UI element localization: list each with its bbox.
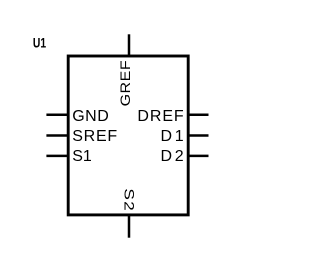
- svg-text:GND: GND: [72, 108, 109, 125]
- svg-text:S1: S1: [72, 148, 92, 165]
- svg-text:DREF: DREF: [137, 108, 184, 125]
- svg-text:D1: D1: [161, 128, 184, 145]
- svg-text:SREF: SREF: [72, 128, 117, 145]
- svg-text:S2: S2: [121, 188, 136, 212]
- svg-text:U1: U1: [33, 36, 47, 51]
- svg-text:D2: D2: [161, 148, 184, 165]
- svg-text:GREF: GREF: [118, 60, 134, 106]
